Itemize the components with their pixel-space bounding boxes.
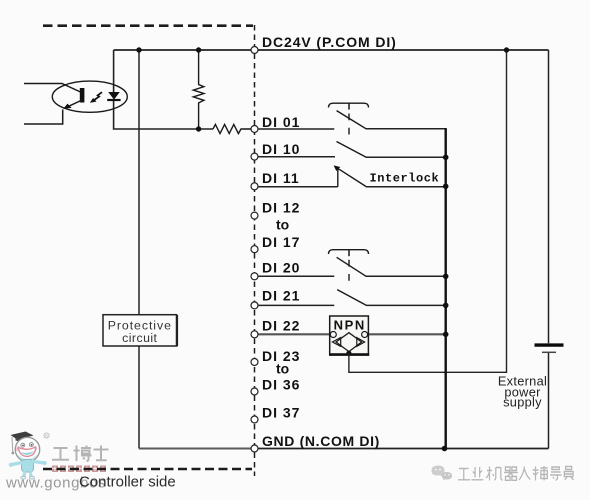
phototransistor collector wire bbox=[24, 84, 81, 93]
switch S3 interlock jog bbox=[337, 168, 339, 186]
terminal DI11 bbox=[251, 183, 258, 190]
resistor R1 pull-up vertical bbox=[193, 50, 204, 129]
watermark text industrial robot tutor (drawn strokes) bbox=[459, 467, 574, 482]
char fu bbox=[533, 466, 548, 481]
svg-text:DI 11: DI 11 bbox=[262, 170, 300, 186]
actuator dashed link S1-S2 bbox=[348, 114, 350, 135]
switch S3 blade DI11 bbox=[338, 168, 367, 186]
wire R2 to DI01 terminal bbox=[243, 128, 251, 130]
terminal DI10 bbox=[251, 153, 258, 160]
phototransistor emitter wire with arrow bbox=[67, 100, 83, 107]
svg-text:DI 22: DI 22 bbox=[262, 318, 300, 334]
registered mark bbox=[44, 433, 49, 438]
wire protective-circuit vertical (DC24V to GND) bbox=[138, 50, 140, 449]
mascot arms bbox=[12, 463, 22, 465]
phototransistor base bar bbox=[80, 88, 85, 103]
terminal DI01 bbox=[251, 126, 258, 133]
terminal DI17 bbox=[251, 246, 258, 253]
wire DI11 right to bus bbox=[366, 186, 446, 188]
NPN sensor diamond bbox=[336, 333, 362, 352]
svg-text:DI 37: DI 37 bbox=[262, 405, 300, 421]
NPN sensor box bbox=[330, 316, 369, 354]
wire GND right segment bbox=[259, 448, 549, 450]
wire LED anode drop bbox=[113, 50, 115, 92]
NPN sensor right triangle bbox=[357, 338, 365, 347]
wire DI21 right to bus bbox=[366, 304, 446, 306]
wire DI11 left bbox=[259, 186, 338, 188]
mascot blush bbox=[16, 447, 20, 451]
char ye bbox=[471, 467, 483, 480]
external supply rail bbox=[548, 50, 550, 343]
svg-text:DI 12: DI 12 bbox=[262, 200, 300, 216]
wire NPN supply to DC24V bbox=[349, 50, 507, 372]
char bo bbox=[74, 446, 92, 462]
terminal DI12 bbox=[251, 212, 258, 219]
svg-text:DI 17: DI 17 bbox=[262, 234, 300, 250]
terminal GND bbox=[251, 445, 258, 452]
mascot cap bbox=[11, 432, 34, 440]
svg-text:DI 21: DI 21 bbox=[262, 288, 300, 304]
terminal DI36 bbox=[251, 388, 258, 395]
wire DI20 right to bus bbox=[366, 275, 446, 277]
mascot body bbox=[22, 460, 34, 473]
svg-text:Controller side: Controller side bbox=[79, 474, 176, 491]
mascot tassel bbox=[11, 437, 14, 452]
svg-text:Interlock: Interlock bbox=[370, 172, 440, 186]
wire DI01 left bbox=[259, 128, 335, 130]
char gong2 bbox=[458, 469, 470, 480]
terminal DC24V bbox=[251, 47, 258, 54]
battery BT1 short plate bbox=[542, 351, 556, 353]
junction dots DC24V bbox=[136, 47, 141, 52]
junction dots bus rows bbox=[443, 155, 449, 161]
svg-text:DI 36: DI 36 bbox=[262, 377, 300, 393]
switch actuator bar S1/S2 bbox=[329, 103, 369, 107]
terminal DI22 bbox=[251, 331, 258, 338]
svg-text:DI 10: DI 10 bbox=[262, 141, 300, 157]
watermark logo mascot (gongboshi) bbox=[9, 432, 49, 480]
mascot head bbox=[15, 437, 39, 461]
mascot mouth bbox=[18, 447, 35, 457]
mascot eyes bbox=[21, 443, 25, 447]
resistor R2 series horizontal bbox=[213, 124, 243, 133]
mascot chin tint bbox=[17, 453, 39, 461]
battery BT1 long plate bbox=[535, 343, 564, 346]
wire DI21 left bbox=[259, 304, 335, 306]
junction dots R1 bottom bbox=[196, 126, 201, 131]
protective circuit box bbox=[103, 315, 177, 346]
char qi bbox=[504, 467, 518, 480]
svg-text:NPN: NPN bbox=[334, 318, 366, 333]
mascot legs bbox=[24, 472, 31, 477]
svg-text:to: to bbox=[276, 217, 289, 233]
switch S2 blade DI10 bbox=[337, 142, 367, 158]
junction NPN bottom bbox=[346, 351, 351, 356]
watermark text gong bo shi (drawn strokes) bbox=[52, 446, 109, 462]
wire DI01 right to bus bbox=[366, 128, 447, 130]
watermark red seal text bbox=[52, 466, 106, 473]
wire NPN output to bus bbox=[367, 333, 446, 335]
controller boundary dashed vertical bbox=[254, 25, 256, 476]
LED D1 cathode bar bbox=[107, 99, 120, 101]
bus vertical right bbox=[445, 128, 447, 448]
char ren bbox=[519, 467, 530, 481]
wire DI10 right to bus bbox=[366, 156, 446, 158]
char dao bbox=[550, 467, 562, 480]
photon squiggle arrow bbox=[94, 92, 102, 100]
svg-text:DI 01: DI 01 bbox=[262, 114, 300, 130]
controller boundary dashed bottom bbox=[43, 468, 252, 471]
svg-text:R: R bbox=[45, 434, 48, 439]
NPN sensor left triangle bbox=[332, 338, 340, 347]
wire DI20 left bbox=[259, 275, 335, 277]
switch S4 blade DI20 bbox=[337, 257, 366, 276]
char shi bbox=[94, 446, 109, 461]
wire LED cathode to DI01 row bbox=[114, 100, 213, 129]
svg-text:DC24V (P.COM DI): DC24V (P.COM DI) bbox=[262, 34, 397, 50]
switch S1 blade DI01 bbox=[337, 111, 366, 129]
watermark wechat icon bbox=[432, 466, 453, 481]
svg-text:DI 20: DI 20 bbox=[262, 260, 300, 276]
LED D1 triangle bbox=[108, 92, 120, 100]
char ji bbox=[486, 467, 503, 481]
switch actuator bar S4/S5 bbox=[329, 250, 369, 254]
actuator dashed link S4-S5 bbox=[348, 260, 350, 281]
wire DI22 left to NPN sensor bbox=[259, 333, 332, 335]
terminal DI37 bbox=[251, 416, 258, 423]
phototransistor emitter exit wire bbox=[24, 110, 63, 125]
controller boundary dashed top bbox=[43, 24, 253, 27]
char gong bbox=[52, 448, 69, 460]
switch S5 blade DI21 bbox=[337, 290, 366, 306]
wire DI10 left bbox=[259, 156, 336, 158]
char yuan bbox=[564, 467, 573, 481]
optocoupler U1 body bbox=[52, 81, 127, 112]
NPN sensor terminals bbox=[330, 332, 336, 338]
wire DC24V bus (P.COM DI) bbox=[114, 49, 549, 51]
svg-text:GND (N.COM DI): GND (N.COM DI) bbox=[262, 433, 380, 449]
terminal DI20 bbox=[251, 273, 258, 280]
svg-text:circuit: circuit bbox=[122, 331, 157, 345]
wire GND left segment to terminal bbox=[139, 448, 251, 450]
svg-text:supply: supply bbox=[503, 394, 542, 409]
terminal DI23 bbox=[251, 359, 258, 366]
terminal DI21 bbox=[251, 302, 258, 309]
switch S3 actuation arrow bbox=[334, 165, 341, 171]
svg-text:to: to bbox=[276, 361, 289, 377]
